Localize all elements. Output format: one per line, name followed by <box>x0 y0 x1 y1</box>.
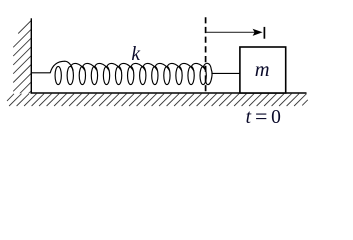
arrow shaft <box>206 31 259 33</box>
svg-text:0: 0 <box>271 107 281 128</box>
wall line <box>30 18 32 93</box>
spring entry sweep <box>50 61 73 72</box>
dashed equilibrium line <box>205 17 207 93</box>
svg-text:t: t <box>246 107 252 128</box>
spring top arcs <box>71 63 206 70</box>
wall hatching <box>13 21 31 109</box>
svg-text:m: m <box>255 59 270 81</box>
arrowhead <box>253 29 263 36</box>
wire from spring to block <box>211 72 239 74</box>
spring coils <box>50 61 212 84</box>
floor hatching <box>7 94 308 106</box>
block <box>240 47 286 93</box>
arrow stop bar <box>263 27 265 39</box>
spring exit curl <box>203 63 212 84</box>
floor line <box>31 92 307 94</box>
svg-text:k: k <box>131 44 140 65</box>
svg-text:=: = <box>255 103 267 128</box>
wire from wall to spring <box>31 72 50 74</box>
